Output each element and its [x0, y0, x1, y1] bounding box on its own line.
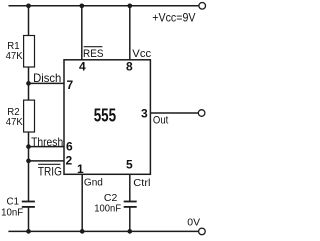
node top rail / pin8: [127, 3, 132, 8]
wire bottom 0V rail: [8, 230, 198, 232]
label TRIG (pin 2, active-low trigger): [38, 164, 62, 178]
svg-text:+Vcc=9V: +Vcc=9V: [152, 10, 196, 24]
wire top supply rail: [9, 5, 199, 7]
svg-text:Thresh: Thresh: [31, 136, 63, 149]
node top rail / pin4: [79, 3, 84, 8]
svg-text:8: 8: [126, 60, 133, 74]
svg-text:Ctrl: Ctrl: [133, 177, 150, 189]
svg-text:4: 4: [79, 59, 86, 73]
wire TRIG horizontal: [29, 160, 65, 162]
wire R1 top: [28, 6, 30, 36]
terminal 0V open circle: [199, 228, 206, 235]
node Disch junction: [26, 81, 31, 86]
svg-text:0V: 0V: [187, 217, 200, 229]
svg-text:5: 5: [126, 158, 133, 172]
terminal +Vcc open circle: [199, 3, 206, 10]
node junction dots: [26, 3, 132, 233]
wire C1 bottom to rail: [28, 207, 30, 232]
resistor R2: [6, 100, 35, 132]
resistor R1: [6, 36, 35, 68]
wire pin8 from rail: [129, 6, 131, 60]
svg-text:47K: 47K: [6, 50, 23, 62]
node pin1 / rail: [80, 229, 85, 234]
svg-text:Vcc: Vcc: [132, 48, 151, 60]
svg-text:Out: Out: [153, 114, 169, 126]
svg-text:RES: RES: [83, 48, 104, 60]
wire Disch horizontal: [29, 82, 65, 84]
svg-text:Disch: Disch: [33, 72, 61, 85]
node C2 / rail: [127, 229, 132, 234]
node Thresh junction: [26, 144, 31, 149]
wire Thresh horizontal: [29, 146, 65, 148]
svg-text:1: 1: [77, 162, 84, 176]
wire C2 bottom to rail: [129, 207, 131, 232]
node C1 / rail: [26, 229, 31, 234]
node TRIG junction: [26, 159, 31, 164]
wire pin1 to rail: [81, 174, 83, 231]
capacitor C2: [94, 192, 136, 215]
svg-text:555: 555: [94, 106, 116, 126]
svg-text:47K: 47K: [6, 116, 23, 128]
capacitor C1: [1, 196, 35, 219]
svg-text:100nF: 100nF: [94, 203, 121, 215]
node top rail / R1: [26, 3, 31, 8]
svg-text:7: 7: [66, 78, 73, 92]
svg-text:6: 6: [66, 140, 73, 154]
wire Out horizontal: [150, 112, 198, 114]
wire R2 bottom to C1 top: [28, 132, 30, 202]
op-amp U1 555 timer IC body: [64, 60, 150, 175]
wire R1 bottom to R2 top: [28, 67, 30, 100]
svg-text:Gnd: Gnd: [84, 177, 103, 189]
svg-text:10nF: 10nF: [1, 207, 23, 219]
svg-text:3: 3: [141, 106, 148, 120]
svg-text:TRIG: TRIG: [38, 165, 62, 178]
wire pin4 from rail: [81, 6, 83, 60]
label RES (pin 4, active-low reset): [83, 47, 104, 60]
terminal Out open circle: [198, 110, 205, 117]
svg-text:2: 2: [66, 153, 73, 167]
wire pin5 to C2 top: [129, 174, 131, 201]
